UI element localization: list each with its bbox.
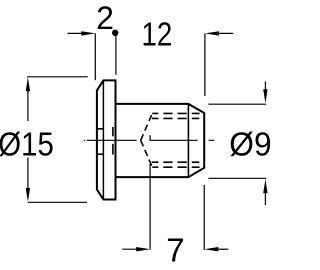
dimension 2: dot terminator [112,30,118,36]
dimension 7: right extension line [203,185,205,250]
body outline [116,104,205,177]
drill cone lower arm (dashed) [141,140,153,167]
dimension 12: arrow [205,31,219,35]
dimension 7: right arrow [204,247,218,251]
dimension D15: top extension line [27,76,88,78]
hidden hole in flange: top dash [98,128,104,130]
dimension D15: lower arrow [27,158,29,191]
dimension 7: left extension line [149,135,151,140]
dimension 2: arrow [68,32,85,34]
hidden hole in flange: bottom dash [98,153,104,155]
body chamfer start line [187,104,189,177]
svg-text:7: 7 [166,232,184,269]
thread minor line bottom (dashed) [152,161,200,163]
centerline [84,139,85,141]
hidden hole bottom line in flange (vertical dashed) [112,127,114,136]
svg-text:12: 12 [142,15,173,52]
thread major line bottom (dashed) [152,166,199,168]
dimension 2: left extension line [94,33,96,80]
flange chamfer edge line [102,80,104,199]
svg-text:Ø15: Ø15 [0,125,54,162]
thread major line top (dashed) [152,112,199,114]
dimension D15: upper arrow [26,77,30,91]
dimension 12: extension line [204,33,206,96]
dimension D15: bottom extension line [28,201,87,203]
thread minor line top (dashed) [152,117,200,119]
drill cone upper arm (dashed) [141,113,153,140]
dimension 7: left arrow [122,248,139,250]
dimension D9: lower arrow (points up) [263,179,267,193]
dimension D9: top extension line [208,103,266,105]
svg-text:Ø9: Ø9 [229,125,270,162]
flange outline [97,80,116,199]
svg-text:2: 2 [96,0,114,36]
dimension D9: upper arrow (points down) [264,82,266,93]
dimension 2: right extension line [115,36,117,75]
dimension D9: bottom extension line [208,177,266,179]
